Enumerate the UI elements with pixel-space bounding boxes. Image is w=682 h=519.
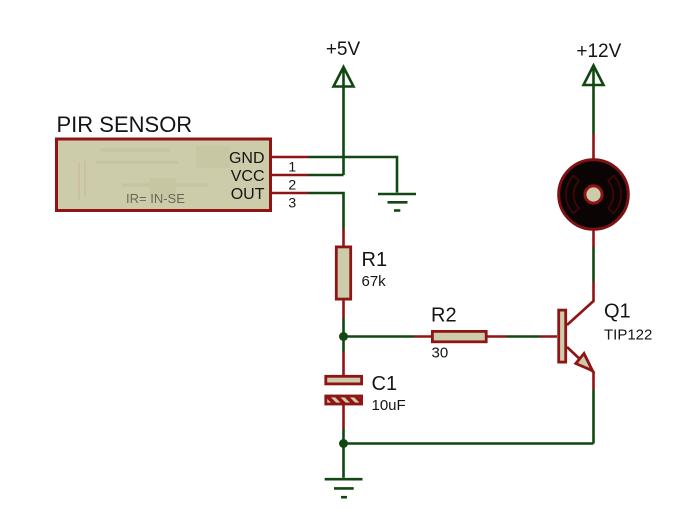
svg-text:+5V: +5V (326, 39, 361, 60)
svg-text:GND: GND (229, 150, 265, 167)
svg-text:+12V: +12V (576, 41, 621, 62)
svg-text:10uF: 10uF (372, 397, 406, 414)
svg-text:2: 2 (288, 177, 296, 193)
svg-text:PIR SENSOR: PIR SENSOR (57, 112, 193, 137)
svg-text:1: 1 (288, 159, 296, 175)
svg-text:30: 30 (432, 345, 449, 362)
svg-text:R1: R1 (362, 249, 388, 271)
svg-text:R2: R2 (431, 305, 457, 327)
svg-text:OUT: OUT (231, 186, 265, 203)
svg-text:Q1: Q1 (604, 301, 631, 323)
svg-text:67k: 67k (362, 273, 387, 290)
svg-text:C1: C1 (372, 373, 398, 395)
svg-text:TIP122: TIP122 (604, 327, 652, 344)
svg-text:3: 3 (288, 195, 296, 211)
svg-text:IR= IN-SE: IR= IN-SE (126, 191, 185, 206)
svg-text:VCC: VCC (231, 168, 265, 185)
